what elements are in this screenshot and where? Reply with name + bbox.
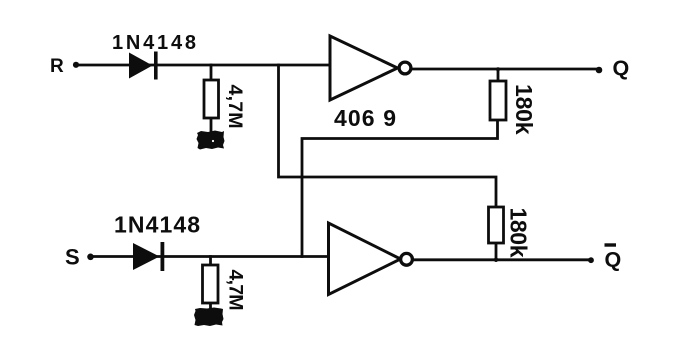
svg-text:Q: Q	[613, 56, 630, 80]
svg-text:406 9: 406 9	[334, 105, 396, 131]
svg-text:180k: 180k	[506, 208, 532, 258]
svg-text:S: S	[65, 245, 80, 270]
svg-text:R: R	[50, 56, 64, 77]
svg-text:4,7M: 4,7M	[224, 85, 246, 129]
svg-text:4,7M: 4,7M	[225, 270, 247, 311]
svg-text:180k: 180k	[511, 84, 537, 135]
svg-text:Q: Q	[605, 247, 622, 271]
svg-text:1N4148: 1N4148	[114, 211, 200, 237]
